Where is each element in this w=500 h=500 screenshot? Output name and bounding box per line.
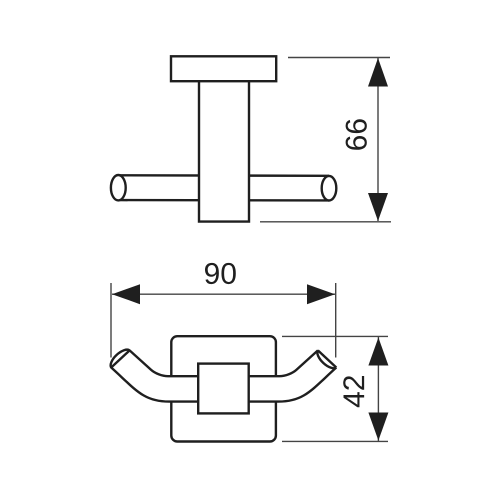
base plate (front view, rounded square) [171, 336, 276, 441]
dimension line 90 [112, 293, 335, 295]
arrowhead left (dim 90) [112, 284, 140, 304]
dimension line 42 [377, 337, 379, 441]
arrowhead up (dim 42) [368, 338, 388, 366]
extension line top (dim 42) [282, 335, 388, 337]
wall plate (side view) [171, 56, 276, 81]
left hook tip face [111, 350, 129, 367]
rod left end cap [111, 175, 126, 200]
left hook (front view) [111, 350, 224, 402]
extension line left (dim 90) [110, 283, 112, 358]
arrowhead right (dim 90) [307, 284, 335, 304]
mounting post (side view) [199, 80, 249, 222]
extension line bottom (dim 42) [282, 440, 388, 442]
arrowhead down (dim 42) [368, 413, 388, 441]
right hook tip face [318, 350, 336, 367]
dimension line 66 [377, 58, 379, 221]
extension line right (dim 90) [335, 283, 337, 358]
dimension text 42 [343, 376, 364, 407]
arrowhead down (dim 66) [368, 193, 388, 221]
dimension text 66 [346, 119, 367, 150]
extension line bottom (dim 66) [260, 221, 391, 223]
dimension text 90 [205, 263, 236, 284]
rod (side view, horizontal bar) [118, 175, 329, 200]
extension line top (dim 66) [288, 57, 390, 59]
arrowhead up (dim 66) [368, 58, 388, 87]
rod right end cap [322, 176, 337, 201]
post front face (front view, small square) [198, 364, 249, 414]
right hook (front view) [224, 350, 337, 401]
